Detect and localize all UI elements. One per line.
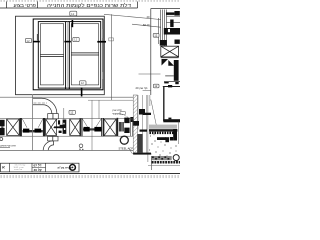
svg-text:12: 12 [154, 34, 158, 38]
svg-text:משקוף: משקוף [113, 112, 121, 115]
svg-text:12: 12 [74, 38, 78, 42]
svg-text:פרטי בצוע: פרטי בצוע [14, 3, 37, 9]
svg-text:א: א [2, 165, 5, 170]
svg-text:מס' תכנית: מס' תכנית [14, 169, 23, 171]
svg-text:פרט סף תחתון: פרט סף תחתון [0, 145, 16, 148]
svg-text:12: 12 [70, 111, 74, 115]
svg-text:סף אבן 20: סף אבן 20 [136, 86, 148, 90]
svg-text:12: 12 [81, 81, 85, 85]
svg-text:56.10: 56.10 [143, 23, 150, 27]
svg-text:דל 07: דל 07 [34, 164, 42, 168]
svg-text:12: 12 [26, 39, 30, 43]
svg-text:קל 40: קל 40 [34, 168, 42, 172]
svg-text:12: 12 [71, 12, 75, 16]
svg-text:STEEL ACP: STEEL ACP [119, 146, 134, 150]
svg-text:דלת שרות כנפיים לקומות החנייה: דלת שרות כנפיים לקומות החנייה [47, 2, 131, 9]
